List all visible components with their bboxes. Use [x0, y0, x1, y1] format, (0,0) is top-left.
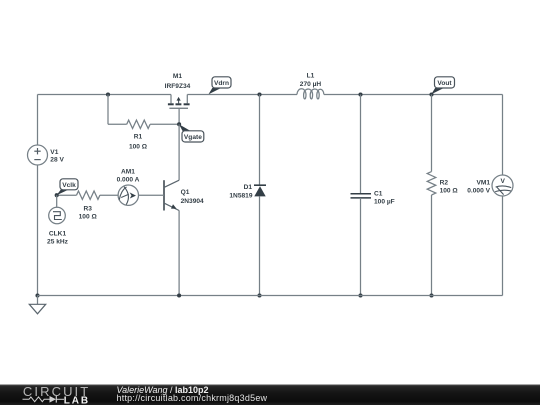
node Q1 emitter junction: [177, 293, 181, 297]
svg-text:V1: V1: [50, 149, 58, 156]
svg-text:AM1: AM1: [121, 169, 135, 176]
logo wire glyph: [23, 396, 65, 403]
resistor R2: [427, 95, 458, 296]
flag Vgate: [179, 124, 204, 142]
node D1 bottom junction: [257, 293, 261, 297]
svg-text:2N3904: 2N3904: [181, 198, 204, 205]
logo CIRCUIT text: [23, 384, 90, 399]
footer line 2: [117, 393, 268, 403]
flag Vdrn: [208, 77, 231, 95]
svg-text:1N5819: 1N5819: [229, 193, 252, 200]
svg-text:M1: M1: [173, 73, 182, 80]
node Vgate junction: [177, 122, 181, 126]
capacitor C1: [351, 95, 395, 296]
svg-text:D1: D1: [244, 184, 253, 191]
wire Vclk node to R3: [57, 194, 77, 196]
svg-text:Vout: Vout: [437, 80, 452, 87]
flag Vout: [431, 77, 454, 94]
wire top rail M1 to L1: [187, 94, 297, 96]
diode D1: [229, 95, 266, 296]
mosfet M1: [165, 73, 191, 124]
svg-text:Vdrn: Vdrn: [214, 80, 229, 87]
node C1 bottom junction: [358, 293, 362, 297]
footer line 1: [117, 385, 209, 395]
svg-text:0.000 V: 0.000 V: [467, 188, 490, 195]
wire base: [139, 194, 165, 196]
svg-text:Vgate: Vgate: [184, 134, 202, 141]
footer bar: [0, 385, 540, 405]
svg-text:Vclk: Vclk: [62, 182, 76, 189]
logo LAB text: [64, 395, 90, 405]
node C1 top junction: [358, 92, 362, 96]
svg-text:25 kHz: 25 kHz: [47, 239, 69, 246]
svg-text:28 V: 28 V: [50, 157, 64, 164]
wire bottom rail: [38, 295, 503, 297]
node D1 top junction: [257, 92, 261, 96]
inductor L1: [297, 72, 324, 99]
node ground junction: [35, 293, 39, 297]
wire left rail upper: [37, 95, 39, 146]
node R1 branch on top rail: [106, 92, 110, 96]
svg-text:V: V: [500, 178, 505, 185]
svg-text:L1: L1: [307, 72, 315, 79]
node Vout junction: [429, 92, 433, 96]
resistor R1: [108, 95, 179, 151]
svg-text:C1: C1: [374, 190, 383, 197]
svg-text:R3: R3: [83, 206, 92, 213]
svg-text:100 µF: 100 µF: [374, 198, 395, 205]
clock source CLK1: [47, 195, 69, 245]
svg-text:270 µH: 270 µH: [300, 81, 322, 88]
svg-text:100 Ω: 100 Ω: [129, 144, 148, 151]
svg-text:http://circuitlab.com/chkrmj8q: http://circuitlab.com/chkrmj8q3d5ew: [117, 393, 268, 403]
svg-text:Q1: Q1: [181, 189, 190, 196]
resistor R3: [77, 191, 100, 221]
svg-text:LAB: LAB: [64, 395, 90, 405]
voltage source V1: [28, 145, 65, 165]
svg-text:VM1: VM1: [476, 180, 490, 187]
ammeter AM1: [117, 169, 140, 206]
node Vclk junction: [55, 193, 59, 197]
svg-text:R2: R2: [440, 180, 449, 187]
wire AM1 to R3: [100, 194, 118, 196]
svg-text:100 Ω: 100 Ω: [79, 214, 98, 221]
wire top rail L1 to corner: [324, 94, 503, 96]
svg-text:0.000 A: 0.000 A: [117, 177, 140, 184]
transistor Q1: [164, 124, 204, 295]
svg-text:R1: R1: [134, 134, 143, 141]
wire left rail lower: [37, 165, 39, 296]
svg-text:100 Ω: 100 Ω: [440, 188, 459, 195]
wire top rail left: [38, 94, 172, 96]
ground: [29, 296, 45, 314]
flag Vclk: [57, 179, 79, 195]
node R2 bottom junction: [429, 293, 433, 297]
voltmeter VM1: [467, 95, 513, 296]
svg-text:IRF9Z34: IRF9Z34: [165, 83, 191, 90]
svg-text:CLK1: CLK1: [49, 231, 67, 238]
